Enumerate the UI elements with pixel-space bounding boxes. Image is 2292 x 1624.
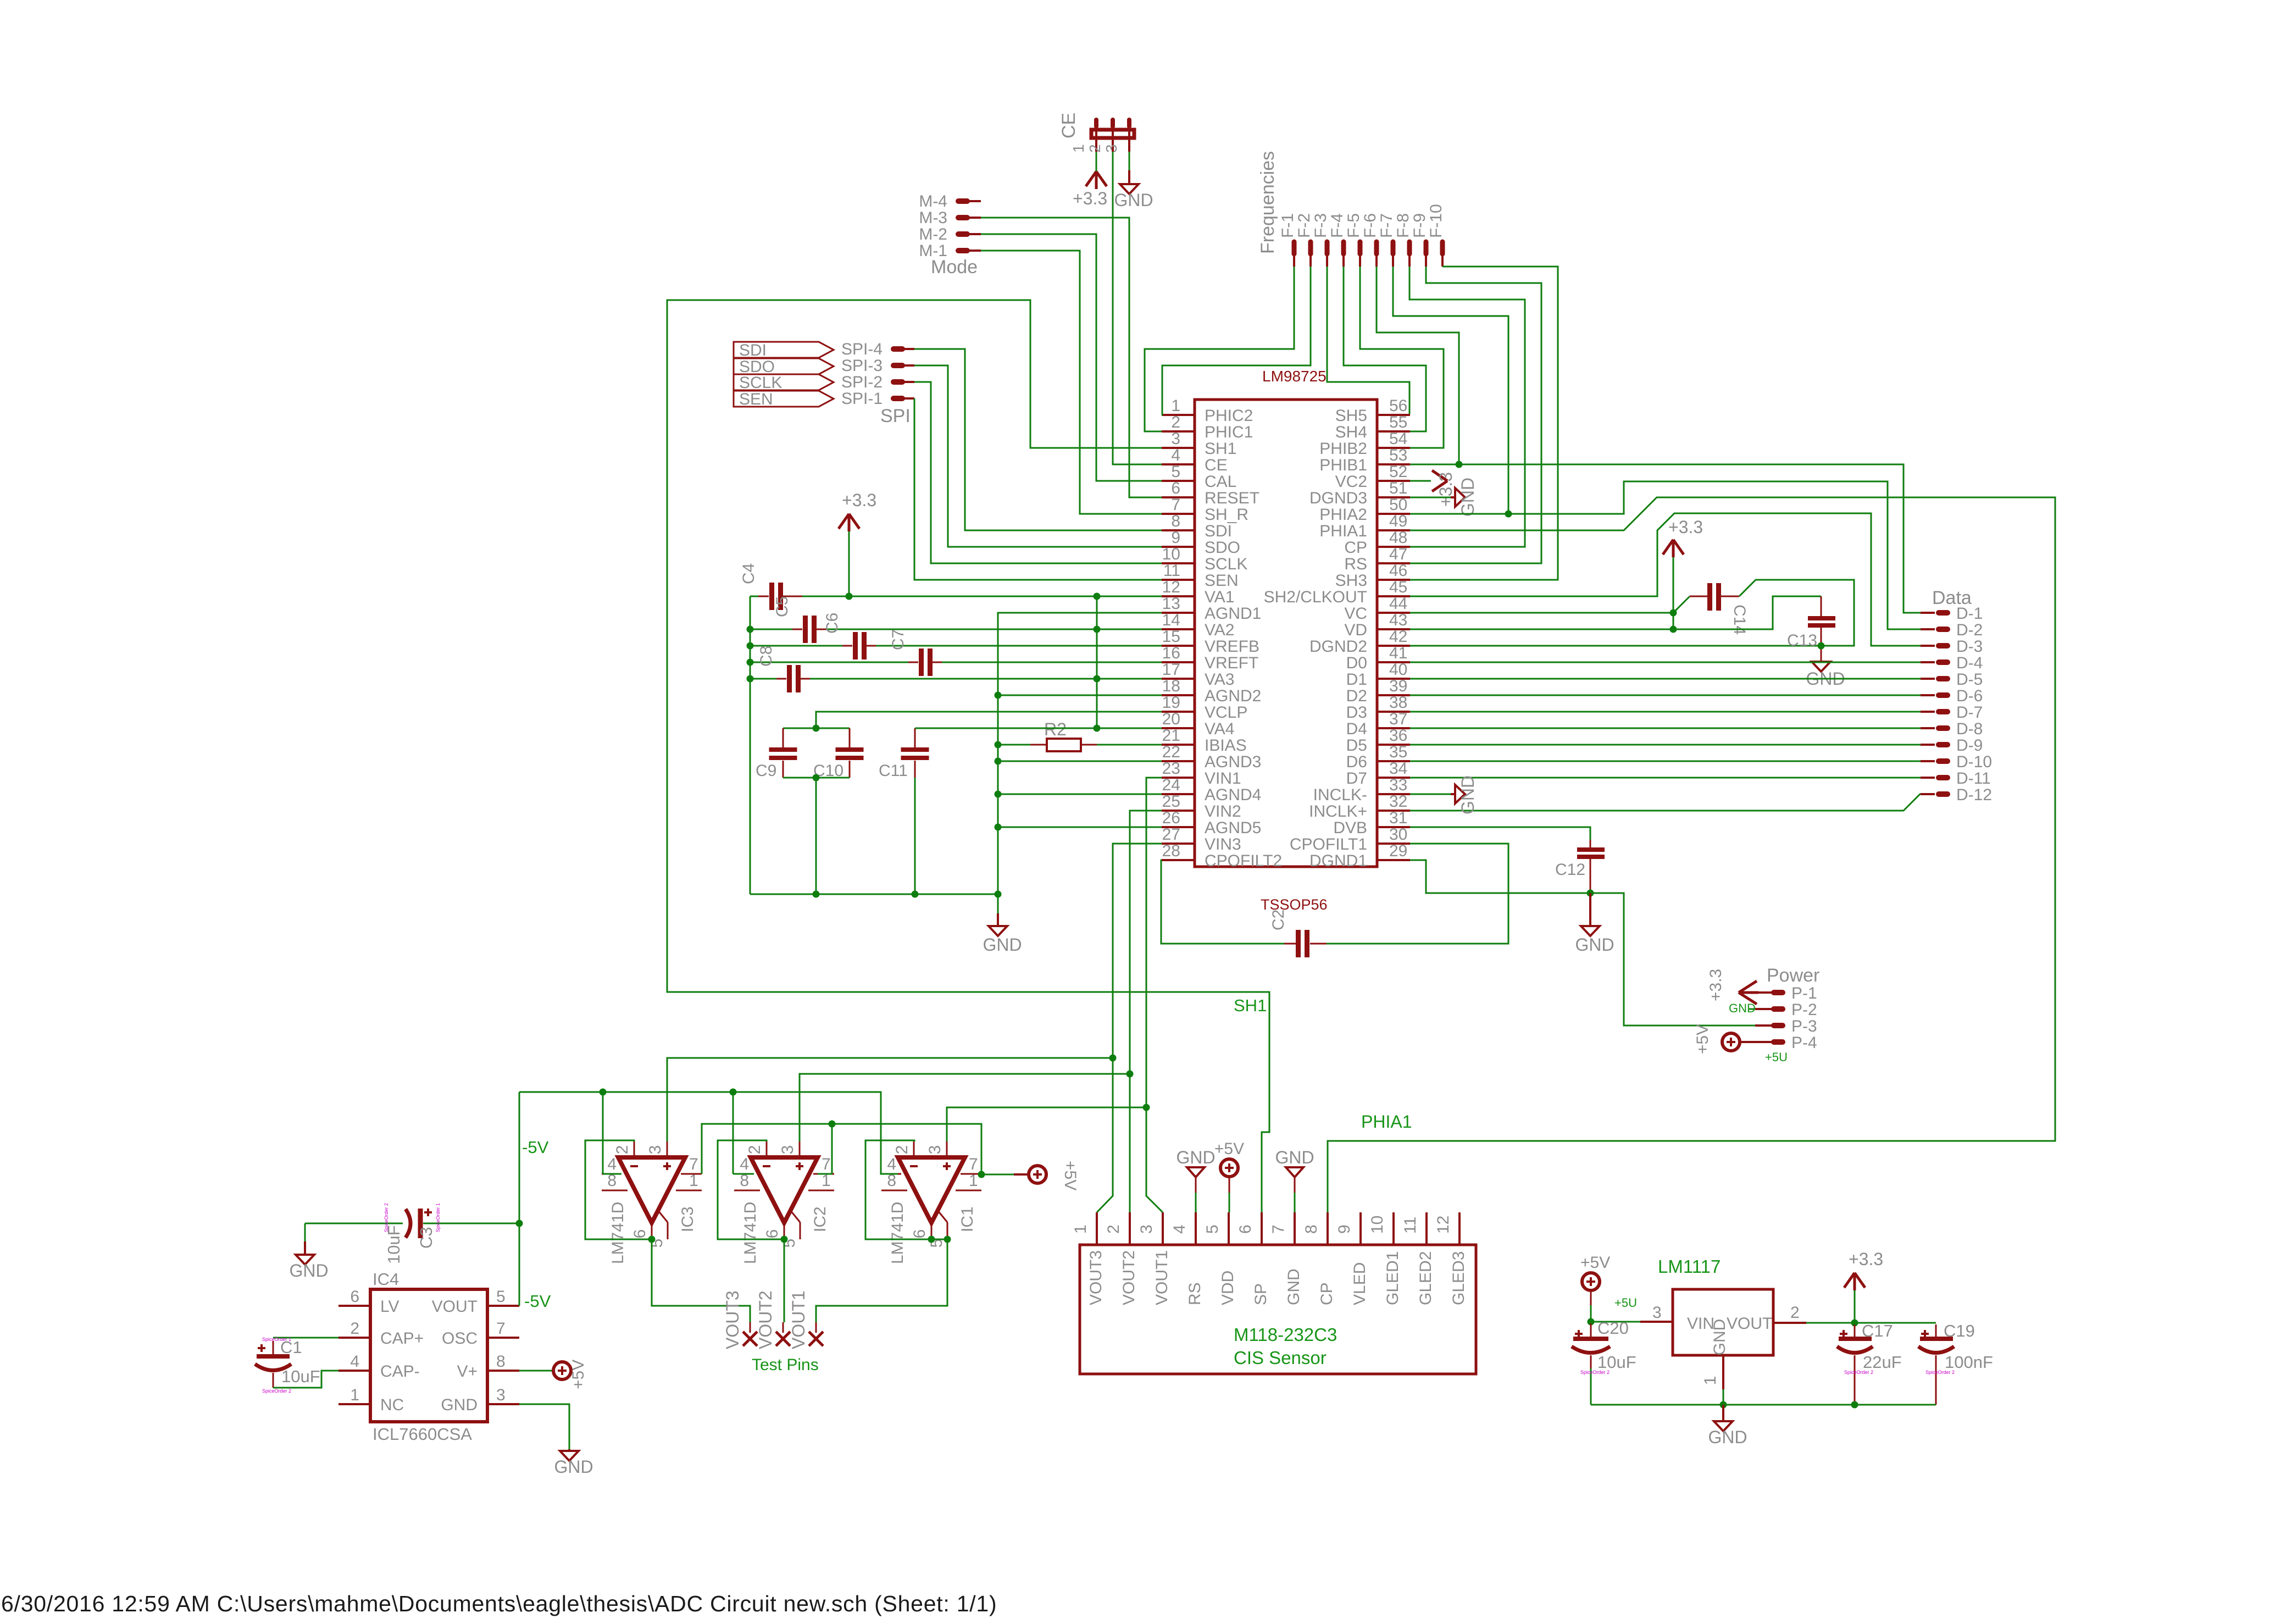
svg-text:6: 6 [1236, 1224, 1255, 1234]
svg-text:C13: C13 [1787, 631, 1817, 650]
svg-text:24: 24 [1162, 776, 1180, 794]
svg-text:RS: RS [1186, 1282, 1204, 1305]
svg-text:SH2/CLKOUT: SH2/CLKOUT [1264, 588, 1367, 606]
wire AGND2 row to chip pin18 [998, 695, 1162, 696]
svg-text:VA3: VA3 [1205, 670, 1234, 689]
svg-text:C9: C9 [756, 762, 776, 780]
svg-text:34: 34 [1389, 760, 1407, 778]
junction -5V IC3 pin4 [600, 1089, 607, 1096]
svg-text:12: 12 [1434, 1216, 1452, 1234]
svg-text:DVB: DVB [1333, 819, 1367, 837]
junction IC1 pin7 [978, 1171, 985, 1178]
svg-text:CE: CE [1058, 113, 1079, 138]
svg-text:GND: GND [1176, 1148, 1215, 1167]
svg-text:VCLP: VCLP [1205, 703, 1247, 722]
junction C9 C10 bottom [813, 774, 820, 781]
wire -5V rail from IC4 to op-amp V- pins [519, 1092, 898, 1174]
svg-text:VOUT: VOUT [432, 1298, 478, 1316]
sensor pin stubs 1-12 [1097, 1212, 1459, 1245]
sensor pin names [1087, 1250, 1468, 1305]
svg-text:7: 7 [969, 1155, 978, 1173]
svg-text:35: 35 [1389, 743, 1407, 761]
wire D7 row chip pin34 to D-11 [1410, 777, 1921, 779]
svg-text:VOUT3: VOUT3 [723, 1290, 742, 1349]
svg-text:Power: Power [1767, 965, 1819, 986]
svg-text:IC4: IC4 [373, 1270, 399, 1289]
capacitor C6 [750, 613, 876, 659]
ground GND below C13 [1806, 662, 1845, 689]
wire CE pin2 to chip pin4 CE [1113, 152, 1162, 464]
svg-text:46: 46 [1389, 562, 1407, 580]
svg-text:27: 27 [1162, 825, 1180, 844]
svg-text:D3: D3 [1346, 703, 1367, 722]
wire M-1 to chip pin7 SH_R [981, 251, 1162, 514]
svg-text:11: 11 [1401, 1217, 1419, 1234]
svg-text:14: 14 [1162, 611, 1180, 629]
svg-text:DGND2: DGND2 [1309, 638, 1367, 656]
wire D5 row chip pin36 to D-9 [1410, 744, 1921, 746]
svg-text:28: 28 [1162, 842, 1180, 860]
svg-text:100nF: 100nF [1945, 1353, 1993, 1372]
svg-text:26: 26 [1162, 809, 1180, 827]
svg-text:20: 20 [1162, 710, 1180, 728]
wire F-4 to chip pin55 SH4 [1344, 267, 1426, 431]
ground GND below CE pin3 [1114, 184, 1153, 210]
svg-text:VREFB: VREFB [1205, 638, 1259, 656]
svg-text:1: 1 [350, 1386, 359, 1404]
svg-text:AGND3: AGND3 [1205, 753, 1261, 771]
svg-text:SPI-2: SPI-2 [841, 373, 883, 391]
svg-text:LM741D: LM741D [889, 1202, 907, 1264]
wire F-2 to chip pin1 PHIC2 [1162, 267, 1311, 415]
svg-text:D-4: D-4 [1956, 654, 1983, 672]
svg-text:VC: VC [1344, 605, 1367, 623]
svg-text:D2: D2 [1346, 687, 1367, 705]
wire D4 row chip pin37 to D-8 [1410, 728, 1921, 729]
svg-text:13: 13 [1162, 595, 1180, 613]
svg-text:36: 36 [1389, 727, 1407, 745]
junction LM1117 GND row C17 [1851, 1401, 1858, 1409]
svg-text:SPI-1: SPI-1 [841, 390, 883, 408]
junction VOUT1 riser [1143, 1104, 1150, 1111]
wire VIN1 chip pin23 to sensor pin3 and IC1 pin3 [1146, 778, 1163, 1212]
junction VA4 tie [1094, 725, 1101, 732]
svg-text:+5V: +5V [1694, 1024, 1712, 1054]
svg-text:VOUT2: VOUT2 [756, 1290, 775, 1349]
supply +5V circle at IC4 pin8 [519, 1360, 587, 1389]
svg-text:F-8: F-8 [1394, 213, 1412, 238]
wire F-7 to PHIA2 net junction [1393, 267, 1508, 514]
ground GND above sensor pin4 RS [1176, 1148, 1215, 1212]
svg-text:SpiceOrder 2: SpiceOrder 2 [1580, 1370, 1610, 1375]
junction C3 right on -5V [516, 1220, 523, 1227]
svg-text:CIS Sensor: CIS Sensor [1234, 1348, 1327, 1368]
svg-text:4: 4 [607, 1155, 617, 1173]
svg-text:3: 3 [646, 1145, 664, 1155]
svg-text:SpiceOrder 1: SpiceOrder 1 [435, 1203, 441, 1232]
svg-text:SPI-3: SPI-3 [841, 357, 883, 375]
svg-text:52: 52 [1389, 463, 1407, 481]
net label SH1 [1234, 996, 1267, 1015]
label Test Pins [752, 1356, 819, 1374]
wire LM1117 ground row [1591, 1404, 1936, 1406]
wire SPI-4 to chip pin8 SDI [914, 349, 1162, 530]
wire VA3 row C8 to chip pin17 [810, 678, 1162, 680]
svg-text:CPOFILT2: CPOFILT2 [1205, 852, 1282, 870]
chip package label TSSOP56 [1261, 896, 1328, 913]
svg-text:6: 6 [631, 1229, 649, 1239]
svg-text:40: 40 [1389, 661, 1407, 679]
ground GND below C12 [1575, 893, 1614, 955]
svg-text:SH1: SH1 [1234, 996, 1267, 1015]
sensor M118-232C3 CIS Sensor body [1080, 1245, 1476, 1374]
svg-text:2: 2 [350, 1320, 359, 1338]
svg-text:F-7: F-7 [1378, 213, 1396, 238]
svg-text:LM741D: LM741D [609, 1202, 627, 1264]
svg-text:VOUT: VOUT [1727, 1315, 1772, 1333]
junction F-6 on PHIB1 row [1456, 461, 1463, 468]
svg-text:Mode: Mode [931, 257, 978, 278]
svg-text:PHIB1: PHIB1 [1319, 456, 1367, 474]
svg-text:GLED1: GLED1 [1384, 1251, 1402, 1305]
svg-text:SDI: SDI [1205, 522, 1232, 540]
capacitor C19 100nF [1918, 1321, 1993, 1405]
svg-text:C14: C14 [1730, 605, 1749, 635]
svg-text:3: 3 [1137, 1224, 1156, 1234]
svg-text:VC2: VC2 [1335, 473, 1367, 491]
svg-text:CPOFILT1: CPOFILT1 [1290, 835, 1367, 853]
wire -5V drop to IC2 pin4 [733, 1092, 754, 1174]
svg-text:33: 33 [1389, 776, 1407, 794]
wire P-3 red stub [1755, 1024, 1772, 1027]
wire D3 row chip pin38 to D-7 [1410, 711, 1921, 713]
ground GND below LM1117 [1708, 1405, 1747, 1447]
IC IC4 ICL7660CSA charge pump body [370, 1270, 487, 1444]
svg-text:D5: D5 [1346, 736, 1367, 755]
svg-text:OSC: OSC [442, 1329, 478, 1348]
svg-text:49: 49 [1389, 512, 1407, 530]
svg-text:3: 3 [926, 1145, 944, 1155]
svg-text:AGND2: AGND2 [1205, 687, 1261, 705]
junction AGND4 [995, 791, 1002, 798]
svg-text:SpiceOrder 2: SpiceOrder 2 [1844, 1370, 1873, 1375]
supply +5V circle above sensor pin5 VDD [1214, 1140, 1244, 1212]
wire VREFT row C7 to chip pin16 [942, 662, 1162, 663]
svg-text:16: 16 [1162, 644, 1180, 662]
chip pin names [1205, 407, 1367, 870]
wire +5V drop to IC2 pin7 [818, 1124, 832, 1174]
wire IC2 feedback output to pin2 [718, 1140, 784, 1239]
svg-text:F-6: F-6 [1361, 213, 1379, 238]
svg-text:6/30/2016 12:59 AM C:\Users\m: 6/30/2016 12:59 AM C:\Users\mahme\Docume… [1, 1591, 997, 1616]
svg-text:1: 1 [689, 1172, 698, 1190]
svg-text:3: 3 [1652, 1304, 1662, 1322]
junction AGND2 [995, 692, 1002, 699]
svg-text:4: 4 [740, 1155, 749, 1173]
chip pin stubs 1-56 [1162, 415, 1410, 860]
svg-text:INCLK+: INCLK+ [1309, 802, 1367, 821]
svg-text:D-7: D-7 [1956, 703, 1983, 722]
svg-text:SH_R: SH_R [1205, 506, 1248, 524]
ground GND below cap bank [983, 894, 1022, 955]
svg-text:GND: GND [1575, 935, 1614, 955]
svg-text:1: 1 [1701, 1376, 1719, 1385]
svg-text:1: 1 [1070, 144, 1087, 153]
svg-text:C3: C3 [417, 1227, 436, 1249]
svg-text:GND: GND [1285, 1268, 1303, 1305]
svg-text:VIN1: VIN1 [1205, 769, 1241, 788]
svg-text:7: 7 [689, 1155, 698, 1173]
wire SH1 loop from chip pin3 around left side to sensor pin6 SP [667, 300, 1269, 1212]
svg-text:DGND3: DGND3 [1309, 489, 1367, 507]
capacitor C10 [813, 728, 864, 780]
svg-text:10: 10 [1368, 1216, 1386, 1234]
junction AGND5 [995, 824, 1002, 831]
svg-text:+5U: +5U [1614, 1296, 1637, 1310]
junction VOUT2 riser [1126, 1071, 1134, 1078]
wire M-2 to chip pin5 CAL [981, 234, 1162, 481]
svg-text:2: 2 [1086, 144, 1103, 153]
svg-text:42: 42 [1389, 628, 1407, 646]
net label -5V on rail [522, 1138, 549, 1157]
junction +5V IC2 drop [829, 1121, 836, 1128]
svg-text:GND: GND [554, 1457, 593, 1477]
wire D2 row chip pin39 to D-6 [1410, 695, 1921, 696]
svg-text:GND: GND [1114, 190, 1153, 210]
wire VIN3 chip pin27 to sensor pin1 and IC3 pin3 [1097, 844, 1162, 1212]
junction VA2 tie [1094, 626, 1101, 633]
svg-text:VOUT1: VOUT1 [1153, 1250, 1171, 1305]
svg-text:RS: RS [1344, 555, 1367, 573]
svg-text:54: 54 [1389, 430, 1407, 448]
supply +5V circle at P-4 [1694, 1024, 1788, 1064]
wire IC2 output to test pin VOUT2 [784, 1239, 785, 1322]
wire VA tie vertical bus [1096, 596, 1098, 728]
svg-text:19: 19 [1162, 694, 1180, 712]
wire VD row chip pin43 to +3.3 [1410, 629, 1673, 630]
svg-text:8: 8 [1171, 512, 1180, 530]
connector Data pins D-1..D-12 [1921, 587, 1992, 804]
ground GND below IC4 pin3 [554, 1449, 593, 1477]
wire IC4 pin3 to GND [519, 1404, 569, 1449]
svg-text:2: 2 [1790, 1304, 1800, 1322]
svg-text:10uF: 10uF [281, 1367, 320, 1386]
svg-text:D6: D6 [1346, 753, 1367, 771]
wire VIN2 chip pin25 to sensor pin2 and IC2 pin3 [1130, 811, 1162, 1212]
junction IC1 pin5 [931, 1236, 951, 1243]
wire AGND4 row to chip pin24 [998, 794, 1162, 795]
wire CE pin3 to GND [1129, 152, 1130, 184]
svg-text:AGND4: AGND4 [1205, 786, 1261, 804]
svg-text:5: 5 [496, 1288, 506, 1306]
svg-text:2: 2 [1105, 1224, 1123, 1234]
svg-text:D1: D1 [1346, 670, 1367, 689]
test pin X VOUT3 [723, 1290, 757, 1349]
capacitor C12 [1555, 840, 1605, 893]
svg-text:Frequencies: Frequencies [1257, 151, 1278, 254]
junction R2 left on AGND bus [995, 741, 1002, 749]
net label GND at P-2 [1729, 1001, 1772, 1015]
svg-text:M118-232C3: M118-232C3 [1234, 1324, 1337, 1345]
svg-text:INCLK-: INCLK- [1313, 786, 1367, 804]
IC4 pin stubs and numbers [338, 1288, 519, 1404]
junction +3.3 VC row [1670, 609, 1677, 617]
wire VOUT3 row to IC3 pin3 [667, 1058, 1113, 1141]
junction C5 left [747, 626, 754, 633]
svg-text:3: 3 [779, 1145, 797, 1155]
svg-text:31: 31 [1389, 809, 1407, 827]
svg-text:PHIA1: PHIA1 [1361, 1112, 1412, 1132]
wire M-3 to chip pin6 RESET [981, 218, 1162, 497]
svg-text:CP: CP [1318, 1282, 1336, 1305]
wire cap bank GND row [750, 894, 998, 895]
capacitor C3 10uF [305, 1203, 519, 1264]
svg-text:VLED: VLED [1351, 1262, 1369, 1305]
svg-text:SCLK: SCLK [739, 374, 782, 392]
svg-text:LM98725: LM98725 [1262, 368, 1327, 385]
svg-text:NC: NC [380, 1396, 404, 1414]
wire DVB chip pin31 to C12 [1410, 827, 1590, 840]
svg-text:AGND5: AGND5 [1205, 819, 1261, 837]
sensor pin numbers [1072, 1216, 1452, 1234]
svg-text:SDO: SDO [1205, 539, 1240, 557]
svg-text:PHIA2: PHIA2 [1319, 506, 1367, 524]
svg-text:P-1: P-1 [1791, 984, 1817, 1002]
chip pin numbers 1-56 [1162, 397, 1408, 860]
svg-text:56: 56 [1389, 397, 1407, 415]
svg-text:+3.3: +3.3 [1073, 189, 1107, 208]
svg-text:SH5: SH5 [1335, 407, 1367, 425]
wire D0 row chip pin41 to D-4 [1410, 662, 1921, 663]
wire AGND3 row to chip pin22 [998, 761, 1162, 762]
junction IC3 output [648, 1236, 656, 1243]
svg-text:D-1: D-1 [1956, 605, 1983, 623]
capacitor C9 [756, 728, 850, 780]
svg-text:SpiceOrder 2: SpiceOrder 2 [1925, 1370, 1955, 1375]
capacitor C8 [750, 646, 810, 692]
svg-text:GND: GND [1458, 775, 1478, 814]
wire VOUT1 row to IC1 pin3 [947, 1107, 1146, 1141]
svg-text:+5V: +5V [1214, 1140, 1244, 1158]
junction +3.3 on VA1 row [846, 593, 853, 600]
wire VREFB row C6 to chip pin15 [876, 645, 1162, 647]
svg-text:4: 4 [1170, 1224, 1189, 1234]
wire C11 top to VA4 row chip pin20 [915, 728, 1162, 729]
junction C9 C10 top [813, 725, 820, 732]
wire SH2/CLKOUT chip pin45 to D-3 [1410, 513, 1921, 646]
wire F-1 to chip pin2 PHIC1 [1145, 267, 1294, 431]
svg-text:C12: C12 [1555, 861, 1585, 879]
svg-text:PHIB2: PHIB2 [1319, 440, 1367, 458]
svg-text:2: 2 [746, 1145, 764, 1155]
supply +5V circle right of IC1 [981, 1161, 1079, 1190]
junction C20 top [1588, 1318, 1595, 1326]
svg-text:LM741D: LM741D [741, 1202, 759, 1264]
wire VCLP chip pin19 to C9 C10 tops [816, 712, 1162, 728]
ground GND rotated at chip pin33 INCLK- [1410, 775, 1478, 814]
wire VOUT2 row to IC2 pin3 [800, 1074, 1130, 1141]
wire left cap-bank vertical bus [750, 596, 751, 894]
wire F-5 to chip pin54 PHIB2 [1360, 267, 1444, 448]
svg-text:D-10: D-10 [1956, 753, 1992, 771]
svg-text:VIN3: VIN3 [1205, 835, 1241, 853]
svg-text:3: 3 [496, 1386, 506, 1404]
svg-text:SDI: SDI [739, 341, 767, 359]
svg-text:F-3: F-3 [1312, 213, 1330, 238]
wire AGND1 row chip pin13 to AGND bus [998, 613, 1162, 894]
svg-text:+5U: +5U [1765, 1050, 1788, 1064]
supply +3.3 arrow above LM1117 output [1844, 1249, 1883, 1323]
svg-text:1: 1 [969, 1172, 978, 1190]
capacitor C7 [750, 629, 942, 676]
svg-text:PHIC1: PHIC1 [1205, 423, 1253, 441]
supply +5V circle above C20 [1580, 1254, 1610, 1322]
svg-text:2: 2 [613, 1145, 631, 1155]
svg-text:GND: GND [1708, 1427, 1747, 1447]
wire D1 row chip pin40 to D-5 [1410, 678, 1921, 680]
svg-text:29: 29 [1389, 842, 1407, 860]
svg-text:GND: GND [983, 935, 1022, 955]
junction VA1 tie [1094, 593, 1101, 600]
junction C7 left [747, 659, 754, 666]
ground GND above sensor pin7 [1275, 1148, 1314, 1212]
svg-text:44: 44 [1389, 595, 1407, 613]
svg-text:17: 17 [1162, 661, 1180, 679]
svg-text:CP: CP [1344, 539, 1367, 557]
wire CPOFILT1 chip pin30 to C2 right [1327, 844, 1508, 944]
junction GND row AGND bus [995, 891, 1002, 898]
svg-text:AGND1: AGND1 [1205, 605, 1261, 623]
wire IC1 output to test pin VOUT1 [816, 1239, 947, 1322]
svg-text:10uF: 10uF [1597, 1353, 1636, 1372]
svg-text:PHIC2: PHIC2 [1205, 407, 1253, 425]
junction C12 bottom DGND1 [1587, 890, 1594, 897]
svg-text:9: 9 [1171, 529, 1180, 547]
svg-text:SH4: SH4 [1335, 423, 1367, 441]
wire SPI-3 to chip pin9 SDO [914, 365, 1162, 547]
junction F-7 on PHIA2 row [1505, 511, 1512, 518]
net flags SDI SDO SCLK SEN [734, 341, 834, 408]
svg-text:F-4: F-4 [1328, 213, 1346, 238]
svg-text:P-3: P-3 [1791, 1017, 1817, 1035]
svg-text:D-11: D-11 [1956, 769, 1991, 788]
svg-text:6: 6 [763, 1229, 781, 1239]
svg-text:7: 7 [1269, 1224, 1287, 1234]
svg-text:23: 23 [1162, 760, 1180, 778]
wire +3.3 down to VA1 row [848, 531, 850, 596]
svg-text:VA2: VA2 [1205, 621, 1234, 639]
supply +3.3 arrow above C4 row [839, 490, 876, 531]
svg-text:DGND1: DGND1 [1309, 852, 1367, 870]
svg-text:IC1: IC1 [958, 1206, 976, 1232]
svg-text:3: 3 [1171, 430, 1180, 448]
svg-text:CE: CE [1205, 456, 1228, 474]
capacitor C13 [1673, 596, 1835, 662]
svg-text:21: 21 [1162, 727, 1180, 745]
wire PHIA1 net chip pin49 to sensor pin8 CP [1328, 497, 2055, 1212]
svg-text:CAP+: CAP+ [380, 1329, 424, 1348]
svg-text:CAP-: CAP- [380, 1362, 420, 1381]
svg-text:+3.3: +3.3 [1849, 1249, 1883, 1269]
svg-text:F-1: F-1 [1279, 213, 1297, 238]
svg-text:-5V: -5V [522, 1138, 549, 1157]
svg-text:Test Pins: Test Pins [752, 1356, 819, 1374]
wire AGND5 row to chip pin26 [998, 827, 1162, 828]
svg-text:IBIAS: IBIAS [1205, 736, 1247, 755]
svg-text:SpiceOrder 2: SpiceOrder 2 [384, 1203, 389, 1232]
net label -5V at IC4 pin5 [524, 1292, 551, 1311]
svg-text:GND: GND [1275, 1148, 1314, 1167]
